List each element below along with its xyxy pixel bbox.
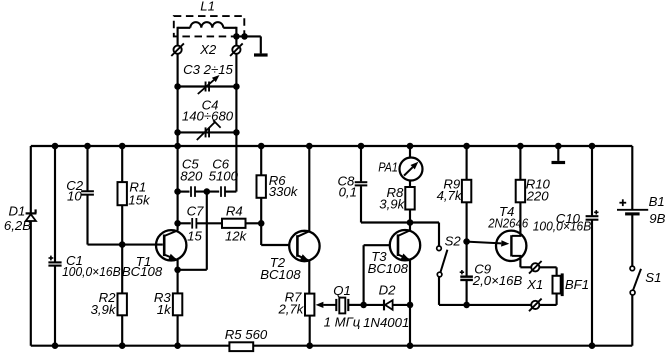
svg-text:3,9k: 3,9k <box>379 197 405 212</box>
svg-text:B1: B1 <box>649 194 665 209</box>
svg-text:Q1: Q1 <box>333 283 351 298</box>
svg-text:12k: 12k <box>225 229 248 244</box>
svg-text:3,9k: 3,9k <box>91 302 117 317</box>
svg-text:C3 2÷15: C3 2÷15 <box>183 62 233 77</box>
svg-text:9В: 9В <box>649 211 665 226</box>
svg-text:6,2В: 6,2В <box>4 218 31 233</box>
svg-text:L1: L1 <box>200 0 215 14</box>
svg-text:220: 220 <box>526 188 550 203</box>
svg-text:100,0×16В: 100,0×16В <box>533 218 592 233</box>
svg-text:4,7k: 4,7k <box>437 188 463 203</box>
svg-text:BC108: BC108 <box>368 261 409 276</box>
svg-text:X1: X1 <box>526 277 543 292</box>
svg-text:PA1: PA1 <box>378 159 398 174</box>
svg-text:5100: 5100 <box>209 169 239 184</box>
svg-text:15: 15 <box>187 229 202 244</box>
svg-text:2,7k: 2,7k <box>277 302 304 317</box>
svg-text:BC108: BC108 <box>260 267 301 282</box>
svg-text:R4: R4 <box>226 203 243 218</box>
svg-text:D2: D2 <box>379 282 397 297</box>
svg-text:0,1: 0,1 <box>339 184 357 199</box>
svg-text:1 МГц: 1 МГц <box>324 314 361 329</box>
svg-text:140÷680: 140÷680 <box>182 109 234 124</box>
svg-text:100,0×16В: 100,0×16В <box>62 264 121 279</box>
svg-text:1k: 1k <box>157 302 172 317</box>
svg-text:S2: S2 <box>445 233 462 248</box>
svg-text:2,0×16В: 2,0×16В <box>472 273 523 288</box>
svg-text:1N4001: 1N4001 <box>363 315 409 330</box>
svg-text:2N2646: 2N2646 <box>487 216 528 231</box>
svg-text:BC108: BC108 <box>122 264 163 279</box>
svg-text:10: 10 <box>67 188 82 203</box>
svg-text:15k: 15k <box>128 192 151 207</box>
svg-text:BF1: BF1 <box>565 277 589 292</box>
svg-text:X2: X2 <box>199 42 217 57</box>
svg-text:S1: S1 <box>645 270 661 285</box>
svg-text:R5 560: R5 560 <box>225 327 268 342</box>
svg-text:820: 820 <box>180 169 203 184</box>
svg-text:330k: 330k <box>269 184 299 199</box>
svg-text:C7: C7 <box>187 203 205 218</box>
svg-text:D1: D1 <box>9 204 26 219</box>
